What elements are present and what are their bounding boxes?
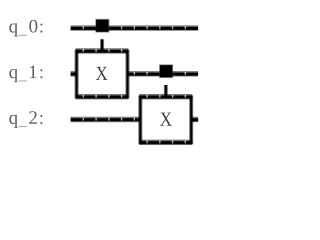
control dot on q_0 (CX q_0 -> q_1) [95,19,109,33]
wire: vertical connector control q_0 to X box on q_1 [100,39,104,51]
gate box X on q_2 (CX target) [139,95,192,144]
gate label X (q_2) [160,113,172,126]
node q_2 label [9,111,42,128]
wire: vertical connector control q_1 to X box on q_2 [164,85,168,97]
node q_0 label [9,20,42,37]
wire q_1 left stub into X box [71,71,77,77]
wire q_2 left segment [71,118,141,121]
wire q_0 [71,26,199,29]
wire q_1 right segment [127,72,198,75]
node q_1 label [9,66,42,83]
gate label X (q_1) [96,67,108,80]
gate box X on q_1 (CX target) [76,49,129,98]
wire q_2 right stub out of X box [191,117,198,123]
control dot on q_1 (CX q_1 -> q_2) [159,64,173,78]
